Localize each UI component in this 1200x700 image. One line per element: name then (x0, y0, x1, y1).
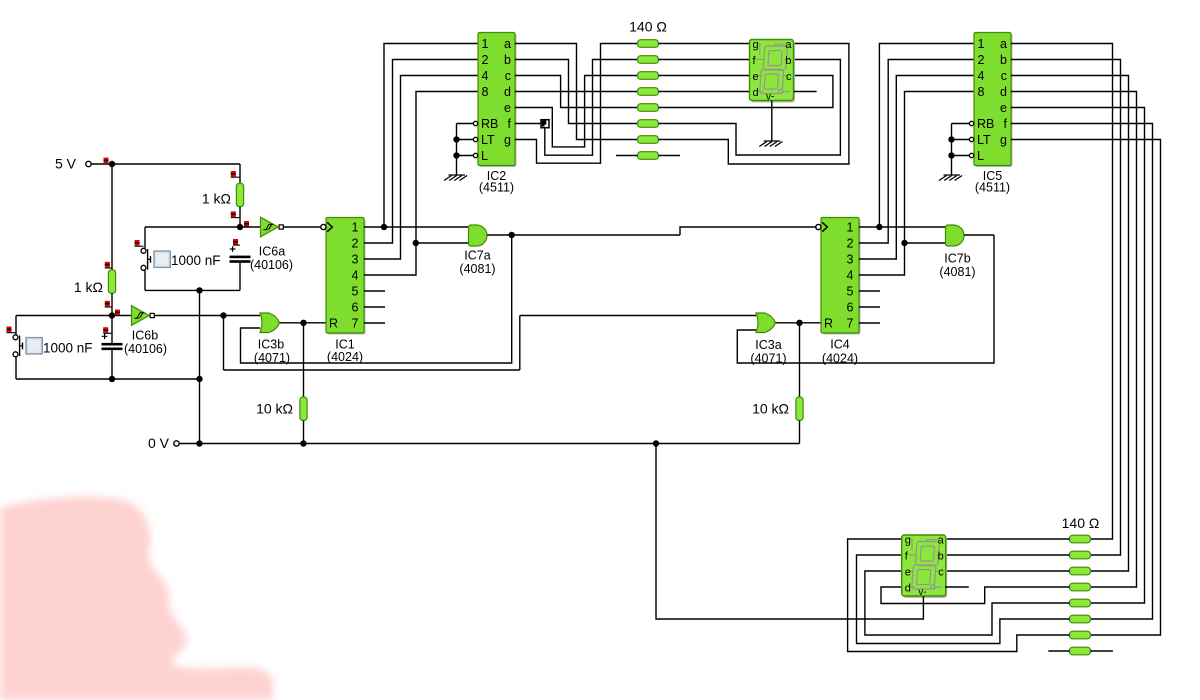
indicator 5V rail (104, 158, 109, 164)
wire long run to IC3a input (520, 315, 757, 317)
svg-text:f: f (1004, 117, 1008, 131)
svg-text:R: R (329, 317, 338, 331)
wire IC4 pin5 stub (859, 290, 880, 292)
wire IC2 control common (456, 124, 458, 176)
wire IC1 pin3 to IC2.4 (364, 76, 478, 260)
pin IC5 RB bubble (969, 121, 973, 125)
svg-text:4: 4 (847, 269, 854, 283)
wire branch down to long run (223, 316, 225, 371)
indicator C2 (103, 327, 112, 333)
wire pin1 riser to IC5.1 (879, 44, 974, 228)
wire 10k right bottom (799, 421, 801, 444)
pin IC1 clock input (321, 222, 333, 231)
svg-text:e: e (1000, 101, 1007, 115)
svg-text:4: 4 (352, 269, 359, 283)
wire IC1 pin5 stub (364, 290, 385, 292)
wire IC4 pin3 to IC5.4 (859, 76, 974, 260)
indicator below right 1k (231, 211, 240, 217)
resistor 140Ω bottom row7 (1070, 631, 1091, 639)
junction osc1 top / IC6a input (237, 224, 243, 230)
counter IC1 (4024) (326, 218, 366, 335)
junction 1k-left / C2 / IC6b input (109, 312, 115, 318)
svg-text:1 kΩ: 1 kΩ (74, 279, 103, 295)
svg-text:(4081): (4081) (939, 265, 975, 279)
wire IC5 control common (951, 124, 953, 176)
wire IC2.f to marker (515, 123, 541, 125)
wire IC2.g to row1 (515, 44, 638, 164)
indicator PB1 (135, 240, 144, 246)
wire bottom row8 left stub (1048, 650, 1069, 652)
wire drop to 0V rail (199, 379, 201, 444)
resistor 140Ω top row6 (638, 120, 659, 128)
junction IC7a out (509, 232, 515, 238)
svg-text:L: L (481, 149, 488, 163)
svg-text:L: L (977, 149, 984, 163)
junction rail/10k left (300, 440, 306, 446)
indicator above left 1k (105, 262, 112, 268)
svg-text:IC7a: IC7a (464, 249, 490, 263)
wire C2 top (111, 316, 113, 343)
resistor 140Ω bottom row3 (1070, 567, 1091, 575)
watermark blob (0, 497, 273, 700)
wire brow2 to DS2.b (945, 554, 1070, 556)
junction osc2 bottom / C2 (109, 376, 115, 382)
svg-text:4: 4 (482, 69, 489, 83)
wire IC2.e to row3 (515, 76, 638, 147)
junction LT (453, 136, 459, 142)
wire IC4 pin7 stub (859, 322, 880, 324)
wire IC6b input rail (16, 315, 132, 317)
wire IC1 pin1 to IC7a input A (364, 226, 469, 228)
svg-text:g: g (1000, 133, 1007, 147)
svg-text:b: b (504, 53, 511, 67)
pushbutton PB2 (13, 335, 42, 357)
decoder IC5 (4511) (974, 33, 1013, 168)
wire row7 wrap to DS1.a (659, 44, 849, 165)
wire long run to IC3a (lower) (224, 369, 520, 371)
wire osc1 left leg bottom (144, 269, 146, 271)
svg-text:1: 1 (482, 37, 489, 51)
svg-text:e: e (504, 101, 511, 115)
svg-text:1000 nF: 1000 nF (171, 253, 221, 268)
svg-text:(4511): (4511) (479, 181, 514, 195)
wire row3 to DS1.e (659, 75, 750, 77)
svg-text:(4081): (4081) (459, 262, 495, 276)
wire 1k left bottom to IC6b input node (111, 293, 113, 315)
wire IC5.c bus (1011, 76, 1129, 572)
wire IC1 pin6 stub (364, 306, 385, 308)
wire to IC7a input B (416, 242, 469, 244)
ground DS1 (759, 141, 782, 147)
wire IC2.a to row7 (515, 44, 638, 140)
wire C2 bottom (111, 350, 113, 379)
junction rail/osc drop (196, 440, 202, 446)
svg-text:IC6b: IC6b (132, 329, 158, 343)
wire marker to row2 (545, 60, 638, 156)
indicator PB2 (7, 327, 16, 333)
resistor 1k left (108, 270, 115, 294)
svg-text:(40106): (40106) (124, 342, 167, 356)
svg-text:0 V: 0 V (148, 435, 170, 451)
svg-text:(4024): (4024) (327, 350, 363, 364)
junction L (453, 152, 459, 158)
wire IC4 pin1 to IC7b input A (859, 226, 946, 228)
wire brow4 under-route to DS2.d (881, 587, 1070, 604)
wire IC5.b bus (1011, 60, 1121, 556)
svg-text:d: d (1000, 85, 1007, 99)
wire row2 to DS1.f (659, 59, 750, 61)
wire IC5.f bus (1011, 124, 1153, 620)
wire DS2.f wrap to brow6 (857, 555, 1070, 644)
wire IC2.b to row6 (515, 60, 638, 124)
wire IC7a to IC4 clock jog (680, 227, 816, 235)
indicator C1 (233, 239, 240, 245)
inverter IC6a (40106) (261, 217, 284, 237)
wire osc2 left leg top (15, 316, 17, 335)
wire row8 left stub (616, 155, 638, 157)
svg-text:c: c (505, 69, 511, 83)
wire DS2 v- to 0V rail (656, 444, 923, 620)
svg-text:140 Ω: 140 Ω (1062, 515, 1100, 531)
and-gate IC7a (4081) (469, 225, 488, 246)
or-gate IC3b (4071) (260, 313, 280, 333)
junction pin4 / IC7b input B (901, 240, 907, 246)
svg-text:2: 2 (482, 53, 489, 67)
wire row1 to DS1.g (659, 43, 750, 45)
wire DS1 v- (771, 101, 773, 141)
pin IC2 LT bubble (473, 137, 477, 141)
resistor 140Ω bottom row2 (1070, 551, 1091, 559)
svg-text:5 V: 5 V (55, 156, 77, 172)
svg-text:b: b (1000, 53, 1007, 67)
svg-text:4: 4 (978, 69, 985, 83)
resistor 140Ω top row4 (638, 88, 659, 96)
wire row8 right stub (659, 155, 681, 157)
resistor 140Ω top row7 (638, 136, 659, 144)
wire IC5.d bus (1011, 92, 1137, 588)
wire 5V corner down to 1k right (239, 164, 241, 183)
wire IC2 LT (457, 139, 474, 141)
resistor 140Ω bottom row4 (1070, 583, 1091, 591)
wire IC2.d to row4 (515, 91, 638, 93)
junction IC3b out / 10k (300, 320, 306, 326)
svg-text:IC4: IC4 (830, 338, 850, 352)
resistor 140Ω top row1 (638, 40, 659, 48)
wire to IC7b input B (905, 242, 946, 244)
svg-text:f: f (508, 117, 512, 131)
ground IC5 controls (939, 175, 962, 181)
wire osc2 left leg bottom (15, 356, 18, 358)
junction IC6b out branch (220, 312, 226, 318)
pin IC2 L bubble (473, 153, 477, 157)
wire IC1 pin4 to IC2.8 (364, 92, 478, 276)
svg-text:IC7b: IC7b (944, 252, 970, 266)
wire row5 wrap to DS1.c (659, 76, 833, 108)
wire IC7b out (964, 234, 994, 236)
svg-text:7: 7 (847, 317, 854, 331)
resistor 140Ω top row5 (638, 104, 659, 112)
wire bottom row8 right stub (1091, 650, 1113, 652)
wire IC5 L (952, 155, 970, 157)
svg-text:a: a (504, 37, 511, 51)
wire IC5.a bus (1011, 44, 1113, 540)
resistor 140Ω bottom row5 (1070, 599, 1091, 607)
wire IC5.e bus (1011, 108, 1145, 604)
capacitor C2 1000nF (102, 334, 123, 351)
indicator IC6a input (244, 221, 249, 227)
pin IC4 clock input (816, 222, 827, 231)
svg-text:RB: RB (481, 117, 498, 131)
svg-text:g: g (504, 133, 511, 147)
svg-text:10 kΩ: 10 kΩ (752, 401, 789, 417)
svg-text:7: 7 (352, 317, 359, 331)
node 5V terminal (55, 156, 91, 172)
resistor 140Ω bottom row8 (1070, 647, 1091, 655)
junction IC5 LT (948, 136, 954, 142)
wire DS1 decimal stub (794, 91, 817, 93)
resistor 140Ω bottom row1 (1070, 535, 1091, 543)
svg-text:3: 3 (352, 253, 359, 267)
junction pin1 riser (381, 224, 387, 230)
resistor 140Ω bottom row6 (1070, 615, 1091, 623)
wire IC4 pin2 to IC5.2 (859, 60, 974, 244)
junction IC3a out / 10k (796, 320, 802, 326)
wire DS2.g wrap to brow7 (848, 539, 1070, 652)
wire IC4 pin6 stub (859, 306, 880, 308)
wire 5V rail (91, 163, 240, 165)
decoder IC2 (4511) (478, 33, 517, 168)
wire osc1 box top (145, 226, 240, 228)
wire 0V rail (179, 443, 799, 445)
or-gate IC3a (4071) (756, 313, 776, 333)
resistor 140Ω top row8 (638, 152, 659, 160)
junction IC5 L (948, 152, 954, 158)
wire DS2 decimal stub (945, 586, 969, 588)
wire to IC6a input (240, 226, 261, 228)
svg-text:6: 6 (352, 301, 359, 315)
display DS2 7-segment (902, 535, 948, 599)
svg-text:3: 3 (847, 253, 854, 267)
and-gate IC7b (4081) (946, 225, 965, 246)
svg-text:R: R (824, 317, 833, 331)
svg-text:140 Ω: 140 Ω (629, 19, 667, 35)
svg-text:1000 nF: 1000 nF (43, 341, 93, 356)
wire osc1 drop to osc2 bottom (199, 290, 201, 379)
wire IC2.c to row5 (515, 76, 638, 108)
svg-text:IC3b: IC3b (258, 338, 284, 352)
resistor 140Ω top row3 (638, 72, 659, 80)
junction osc1 bottom drop (196, 287, 202, 293)
pin IC5 LT bubble (969, 137, 973, 141)
svg-text:5: 5 (352, 285, 359, 299)
wire IC6b out to IC3b (154, 315, 260, 317)
wire IC7a reset loop bottom (241, 235, 512, 363)
wire long run rise (519, 316, 521, 371)
wire C1 bottom to box (239, 263, 241, 291)
svg-text:(4511): (4511) (975, 181, 1010, 195)
wire IC2 L (457, 155, 474, 157)
svg-text:(4024): (4024) (822, 352, 858, 366)
indicator IC6b input (115, 310, 120, 316)
wire IC1 pin7 stub (364, 322, 385, 324)
svg-text:c: c (1001, 69, 1007, 83)
resistor 1k right (236, 183, 243, 207)
junction IC4 pin1 riser (876, 224, 882, 230)
display DS1 7-segment (750, 39, 796, 103)
wire row4 to DS1.d (659, 91, 750, 93)
junction pin4 / IC7a input B (413, 240, 419, 246)
marker on f net (541, 120, 549, 128)
indicator below left 1k (105, 301, 112, 307)
wire IC4 pin4 to IC5.8 (859, 92, 974, 276)
resistor 10k left (300, 397, 307, 421)
wire osc2 box bottom (16, 378, 200, 380)
svg-text:1: 1 (352, 221, 359, 235)
wire brow3 to DS2.c (945, 570, 1070, 572)
svg-text:5: 5 (847, 285, 854, 299)
svg-text:a: a (1000, 37, 1007, 51)
wire row6 wrap to DS1.b (659, 60, 841, 156)
svg-text:1 kΩ: 1 kΩ (202, 191, 231, 207)
wire 1k right bottom to osc1 node (239, 207, 241, 227)
svg-text:10 kΩ: 10 kΩ (256, 401, 293, 417)
wire IC3a out to IC4 R (776, 322, 821, 324)
wire IC7a out (487, 234, 680, 236)
inverter IC6b (40106) (132, 306, 155, 326)
svg-text:2: 2 (978, 53, 985, 67)
wire 10k right top (799, 323, 801, 397)
wire osc1 left leg top (144, 227, 146, 248)
svg-text:2: 2 (847, 237, 854, 251)
wire IC7b reset loop (737, 235, 994, 363)
svg-text:8: 8 (978, 85, 985, 99)
wire pin1 riser to IC2.1 (384, 44, 478, 228)
wire IC1 pin2 to IC2.2 (364, 60, 478, 244)
wire IC2 RB (457, 123, 474, 125)
wire IC6a out to IC1 clock (283, 226, 321, 228)
pin IC5 L bubble (969, 153, 973, 157)
svg-text:8: 8 (482, 85, 489, 99)
indicator above right 1k (231, 171, 240, 177)
counter IC4 (4024) (821, 218, 861, 335)
resistor 140Ω top row2 (638, 56, 659, 64)
ground IC2 controls (444, 175, 467, 181)
svg-text:LT: LT (977, 133, 991, 147)
svg-text:IC3a: IC3a (755, 338, 781, 352)
svg-text:2: 2 (352, 237, 359, 251)
wire brow1 to DS2.a (945, 538, 1070, 540)
wire 10k left bottom (303, 421, 305, 444)
junction osc2 bottom / drop (196, 376, 202, 382)
wire IC5.g bus (1011, 140, 1161, 636)
node 0V terminal (148, 435, 179, 451)
wire osc1 box bottom (145, 289, 240, 291)
svg-text:6: 6 (847, 301, 854, 315)
svg-text:d: d (504, 85, 511, 99)
wire 5V down to 1k left (111, 164, 113, 270)
svg-text:1: 1 (978, 37, 985, 51)
pin IC2 RB bubble (473, 121, 477, 125)
wire IC5 RB (952, 123, 970, 125)
svg-text:LT: LT (481, 133, 495, 147)
svg-text:1: 1 (847, 221, 854, 235)
resistor 10k right (796, 397, 803, 421)
wire IC3b out to IC1 R (280, 322, 326, 324)
capacitor C1 1000nF (230, 246, 251, 263)
wire DS2.e wrap to brow5 (865, 571, 1070, 635)
junction rail/display2 v- (653, 440, 659, 446)
pushbutton PB1 (141, 248, 170, 270)
svg-text:(40106): (40106) (250, 258, 293, 272)
svg-text:IC6a: IC6a (259, 245, 285, 259)
junction 5V/R1k-left (109, 161, 115, 167)
wire 10k left top (303, 323, 305, 397)
svg-text:RB: RB (977, 117, 994, 131)
wire IC5 LT (952, 139, 970, 141)
